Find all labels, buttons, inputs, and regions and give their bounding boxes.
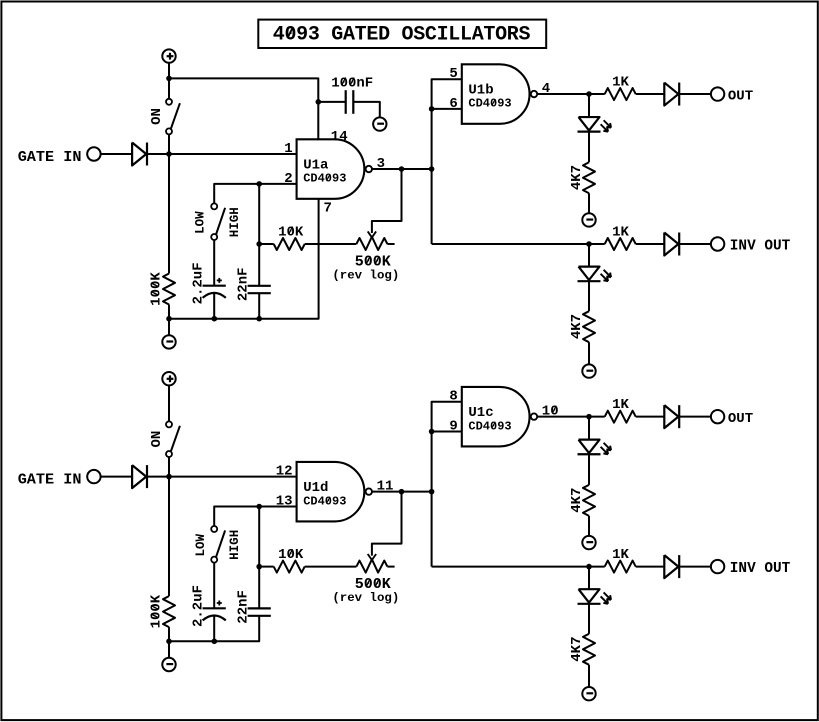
svg-text:INV OUT: INV OUT <box>730 561 791 577</box>
label 1K INV a <box>612 224 629 240</box>
terminal INV OUT b <box>711 560 724 573</box>
power terminal (+) b <box>162 372 175 385</box>
wire switch to gate-in row <box>168 457 170 477</box>
svg-text:100K: 100K <box>149 594 165 628</box>
switch LOW/HIGH b <box>211 526 225 563</box>
node 10K junction <box>256 564 262 570</box>
wire 10K to pot <box>305 566 357 568</box>
node pin-in2 junction <box>429 106 435 112</box>
LED INV a <box>578 267 612 282</box>
svg-text:CD4093: CD4093 <box>468 97 511 111</box>
node rail at 2.2uF <box>212 316 218 322</box>
LED OUT b <box>578 440 612 455</box>
label 4K7 INV a <box>569 314 585 339</box>
capacitor 2.2uF b <box>203 601 226 621</box>
diode INV b <box>664 555 679 578</box>
wire 22nF to rail <box>258 293 260 319</box>
power terminal (-) OUT LED a <box>582 213 595 226</box>
resistor 4K7 OUT a <box>583 162 595 193</box>
wire capacitor to (-) <box>353 102 380 118</box>
wire junction to LED <box>588 417 590 440</box>
resistor 100K a <box>163 274 175 305</box>
node rail at 100K <box>166 316 172 322</box>
node 100nF tap <box>316 99 322 105</box>
wire 1K to diode INV <box>636 566 665 568</box>
svg-text:OUT: OUT <box>728 88 753 104</box>
node VDD junction <box>166 76 172 82</box>
node OUT LED junction <box>586 414 592 420</box>
svg-text:1: 1 <box>284 141 292 157</box>
svg-text:(rev log): (rev log) <box>332 268 399 282</box>
wire diode to OUT <box>680 416 711 418</box>
wire (+) rail down to switch <box>168 78 170 98</box>
label rev log b <box>332 591 399 605</box>
wire pin-in2 <box>432 108 462 110</box>
label OUT b <box>728 411 753 427</box>
svg-text:OUT: OUT <box>728 411 753 427</box>
node 10K junction <box>256 241 262 247</box>
wire switch to 2.2uF <box>213 240 215 286</box>
wire gate2 output <box>537 93 605 95</box>
svg-text:4K7: 4K7 <box>569 314 585 339</box>
wire pin2 junction down <box>258 507 260 567</box>
switch LOW/HIGH a <box>211 203 225 240</box>
node OUT LED junction <box>586 91 592 97</box>
node column junction <box>429 489 435 495</box>
power terminal (-) INV LED b <box>582 687 595 700</box>
svg-text:LOW: LOW <box>194 533 208 556</box>
pin 11 label <box>377 478 394 494</box>
label ON b <box>149 431 165 448</box>
nand gate U1a (CD4093) <box>297 139 372 199</box>
wire terminal to diode <box>101 476 133 478</box>
svg-text:HIGH: HIGH <box>228 530 242 560</box>
wire 2.2uF to rail <box>213 615 215 641</box>
resistor 1K OUT a <box>605 88 636 100</box>
svg-text:CD4093: CD4093 <box>303 172 346 186</box>
svg-text:22nF: 22nF <box>235 590 251 624</box>
power terminal (-) OUT LED b <box>582 536 595 549</box>
svg-text:HIGH: HIGH <box>228 207 242 237</box>
title box <box>258 20 546 48</box>
svg-text:100nF: 100nF <box>331 75 373 91</box>
wire VSS rail to pin 7 <box>169 199 319 319</box>
pin 1 label <box>284 141 292 157</box>
resistor 4K7 INV b <box>583 634 595 665</box>
wire 4K7 to (-) <box>588 516 590 536</box>
wire junction to LED INV <box>588 244 590 267</box>
svg-text:22nF: 22nF <box>235 267 251 301</box>
label 4K7 OUT b <box>569 488 585 513</box>
terminal INV OUT a <box>711 237 724 250</box>
svg-text:6: 6 <box>449 96 457 112</box>
svg-text:2: 2 <box>284 171 292 187</box>
diode OUT a <box>664 83 679 106</box>
LED INV b <box>578 589 612 604</box>
label 500K b <box>355 576 391 593</box>
node pin2 junction <box>256 504 262 510</box>
wire 1K to diode <box>636 93 665 95</box>
label 1K OUT a <box>612 74 629 90</box>
wire junction to LED INV <box>588 567 590 590</box>
diode INV a <box>664 233 679 256</box>
wire 4K7 to (-) INV <box>588 342 590 364</box>
wire diode to pin1 <box>148 153 297 155</box>
svg-text:7: 7 <box>324 201 332 217</box>
label HIGH a <box>228 207 242 237</box>
power terminal (+) a <box>162 49 175 62</box>
wire pin-in2 <box>432 431 462 433</box>
resistor 4K7 OUT b <box>583 485 595 516</box>
capacitor 22nF a <box>248 286 271 293</box>
node rail at 22nF <box>256 316 262 322</box>
wire VDD rail to pin 14 <box>169 78 318 139</box>
power terminal (-) for 100nF <box>373 117 386 130</box>
pin 7 label <box>324 201 332 217</box>
label OUT a <box>728 88 753 104</box>
svg-text:5: 5 <box>449 66 457 82</box>
svg-text:1K: 1K <box>612 547 629 563</box>
resistor 1K INV a <box>605 238 636 250</box>
node pin2 junction <box>256 181 262 187</box>
terminal OUT b <box>711 410 724 423</box>
wire switch to 2.2uF <box>213 563 215 609</box>
wire 100K to rail <box>168 305 170 319</box>
label INV OUT b <box>730 561 791 577</box>
wire 10K to pot <box>305 243 357 245</box>
resistor 1K OUT b <box>605 411 636 423</box>
label LOW a <box>194 211 208 234</box>
label 4K7 INV b <box>569 636 585 661</box>
wire column <box>432 79 462 244</box>
pot wiper arrowhead <box>368 554 376 560</box>
svg-text:LOW: LOW <box>194 211 208 234</box>
wire gate output <box>372 491 432 493</box>
wire 1K to diode <box>636 416 665 418</box>
wire junction to 22nF <box>258 567 260 609</box>
wire column <box>432 402 462 567</box>
svg-text:CD4093: CD4093 <box>303 494 346 508</box>
node INV LED junction <box>586 241 592 247</box>
wire rail to (-) <box>168 319 170 336</box>
pin 9 label <box>449 418 457 434</box>
LED OUT a <box>578 117 612 132</box>
svg-text:(rev log): (rev log) <box>332 591 399 605</box>
wire pin2 to range switch <box>214 507 296 527</box>
node output junction <box>399 489 405 495</box>
wire diode to INV OUT <box>680 566 711 568</box>
label 100K b <box>149 594 165 628</box>
svg-text:ON: ON <box>149 108 165 125</box>
svg-text:9: 9 <box>449 418 457 434</box>
wire diode to OUT <box>680 93 711 95</box>
pin 13 label <box>276 493 293 509</box>
svg-text:2.2uF: 2.2uF <box>190 585 206 627</box>
wire terminal to diode <box>101 153 133 155</box>
diode gate-in a <box>132 143 147 166</box>
nand gate U1c (CD4093) <box>462 387 537 447</box>
wire pin2 to range switch <box>214 184 296 204</box>
label 1K INV b <box>612 547 629 563</box>
wire VSS rail <box>169 616 259 642</box>
label LOW b <box>194 533 208 556</box>
nand gate U1d (CD4093) <box>297 462 372 522</box>
wire gate2 output <box>537 416 605 418</box>
pin 4 label <box>542 81 550 97</box>
resistor 100K b <box>163 596 175 627</box>
label GATE IN b <box>18 471 82 489</box>
label 10K a <box>278 224 304 240</box>
pin 3 label <box>377 156 385 172</box>
label 100nF <box>331 75 373 91</box>
node output junction <box>399 166 405 172</box>
capacitor 100nF <box>346 90 354 114</box>
svg-text:8: 8 <box>449 389 457 405</box>
diode gate-in b <box>132 465 147 488</box>
svg-text:CD4093: CD4093 <box>468 419 511 433</box>
power terminal (-) INV LED a <box>582 364 595 377</box>
svg-text:13: 13 <box>276 493 293 509</box>
label GATE IN a <box>18 148 82 166</box>
svg-text:1K: 1K <box>612 397 629 413</box>
wire 4K7 to (-) <box>588 193 590 213</box>
node column junction <box>429 166 435 172</box>
label 1K OUT b <box>612 397 629 413</box>
wire INV row <box>432 243 605 245</box>
wire junction to 10K <box>259 566 274 568</box>
switch ON b <box>166 421 180 457</box>
wire (+) to VDD junction <box>168 63 170 79</box>
potentiometer 500K a <box>356 237 394 250</box>
svg-text:10K: 10K <box>278 547 304 563</box>
node INV LED junction <box>586 564 592 570</box>
wire down to 100K <box>168 154 170 274</box>
wire LED to 4K7 INV <box>588 281 590 311</box>
svg-text:10K: 10K <box>278 224 304 240</box>
svg-text:1K: 1K <box>612 74 629 90</box>
wire diode to INV OUT <box>680 243 711 245</box>
pin 6 label <box>449 96 457 112</box>
resistor 10K b <box>274 561 305 573</box>
capacitor 2.2uF a <box>203 278 226 298</box>
svg-text:12: 12 <box>276 464 293 480</box>
pin 8 label <box>449 389 457 405</box>
wire LED to 4K7 INV <box>588 604 590 634</box>
svg-text:100K: 100K <box>149 272 165 306</box>
label 22nF b <box>235 590 251 624</box>
diode OUT b <box>664 405 679 428</box>
power terminal (-) b <box>162 658 175 671</box>
resistor 10K a <box>274 238 305 250</box>
label 4K7 OUT a <box>569 165 585 190</box>
wire switch to gate-in row <box>168 134 170 154</box>
wire pot wiper <box>372 169 402 233</box>
wire junction to 10K <box>259 243 274 245</box>
wire INV row <box>432 566 605 568</box>
pin 10 label <box>542 403 559 419</box>
node gate-in junction <box>166 151 172 157</box>
node gate-in junction <box>166 474 172 480</box>
wire (+) to switch <box>168 385 170 421</box>
wire LED to 4K7 <box>588 132 590 163</box>
label 2.2uF b <box>190 585 206 627</box>
terminal GATE IN a <box>87 147 100 160</box>
label HIGH b <box>228 530 242 560</box>
node rail at 100K <box>166 639 172 645</box>
svg-text:4K7: 4K7 <box>569 636 585 661</box>
label INV OUT a <box>730 238 791 254</box>
potentiometer 500K b <box>356 559 394 572</box>
terminal OUT a <box>711 87 724 100</box>
svg-text:4K7: 4K7 <box>569 488 585 513</box>
wire gate output <box>372 168 432 170</box>
wire pot wiper <box>372 492 402 556</box>
svg-text:GATE IN: GATE IN <box>18 148 82 166</box>
svg-text:2.2uF: 2.2uF <box>190 262 206 304</box>
pot wiper arrowhead <box>368 231 376 237</box>
wire junction to LED <box>588 94 590 117</box>
wire diode to pin1 <box>148 476 297 478</box>
svg-text:4K7: 4K7 <box>569 165 585 190</box>
wire rail to (-) <box>168 641 170 658</box>
wire 4K7 to (-) INV <box>588 665 590 687</box>
label 10K b <box>278 547 304 563</box>
pin 5 label <box>449 66 457 82</box>
nand gate U1b (CD4093) <box>462 64 537 124</box>
switch ON a <box>166 99 180 135</box>
wire 100K to rail <box>168 627 170 641</box>
svg-text:ON: ON <box>149 431 165 448</box>
label ON a <box>149 108 165 125</box>
label 500K a <box>355 254 391 271</box>
pin 12 label <box>276 464 293 480</box>
label 22nF a <box>235 267 251 301</box>
wire to capacitor C-100nF <box>318 101 345 103</box>
title text <box>273 24 531 47</box>
label 100K a <box>149 272 165 306</box>
terminal GATE IN b <box>87 470 100 483</box>
svg-text:INV OUT: INV OUT <box>730 238 791 254</box>
wire down to 100K <box>168 477 170 596</box>
wire LED to 4K7 <box>588 454 590 485</box>
wire 1K to diode INV <box>636 243 665 245</box>
node pin-in2 junction <box>429 429 435 435</box>
capacitor 22nF b <box>248 608 271 615</box>
power terminal (-) a <box>162 335 175 348</box>
pin 14 label <box>331 129 348 145</box>
pin 2 label <box>284 171 292 187</box>
resistor 4K7 INV a <box>583 311 595 342</box>
wire pin2 junction down <box>258 184 260 244</box>
node rail at 2.2uF <box>212 639 218 645</box>
svg-text:4093 GATED OSCILLATORS: 4093 GATED OSCILLATORS <box>273 24 531 47</box>
wire 2.2uF to rail <box>213 293 215 319</box>
svg-text:GATE IN: GATE IN <box>18 471 82 489</box>
svg-text:1K: 1K <box>612 224 629 240</box>
label rev log a <box>332 268 399 282</box>
resistor 1K INV b <box>605 561 636 573</box>
svg-text:14: 14 <box>331 129 348 145</box>
wire junction to 22nF <box>258 244 260 286</box>
label 2.2uF a <box>190 262 206 304</box>
